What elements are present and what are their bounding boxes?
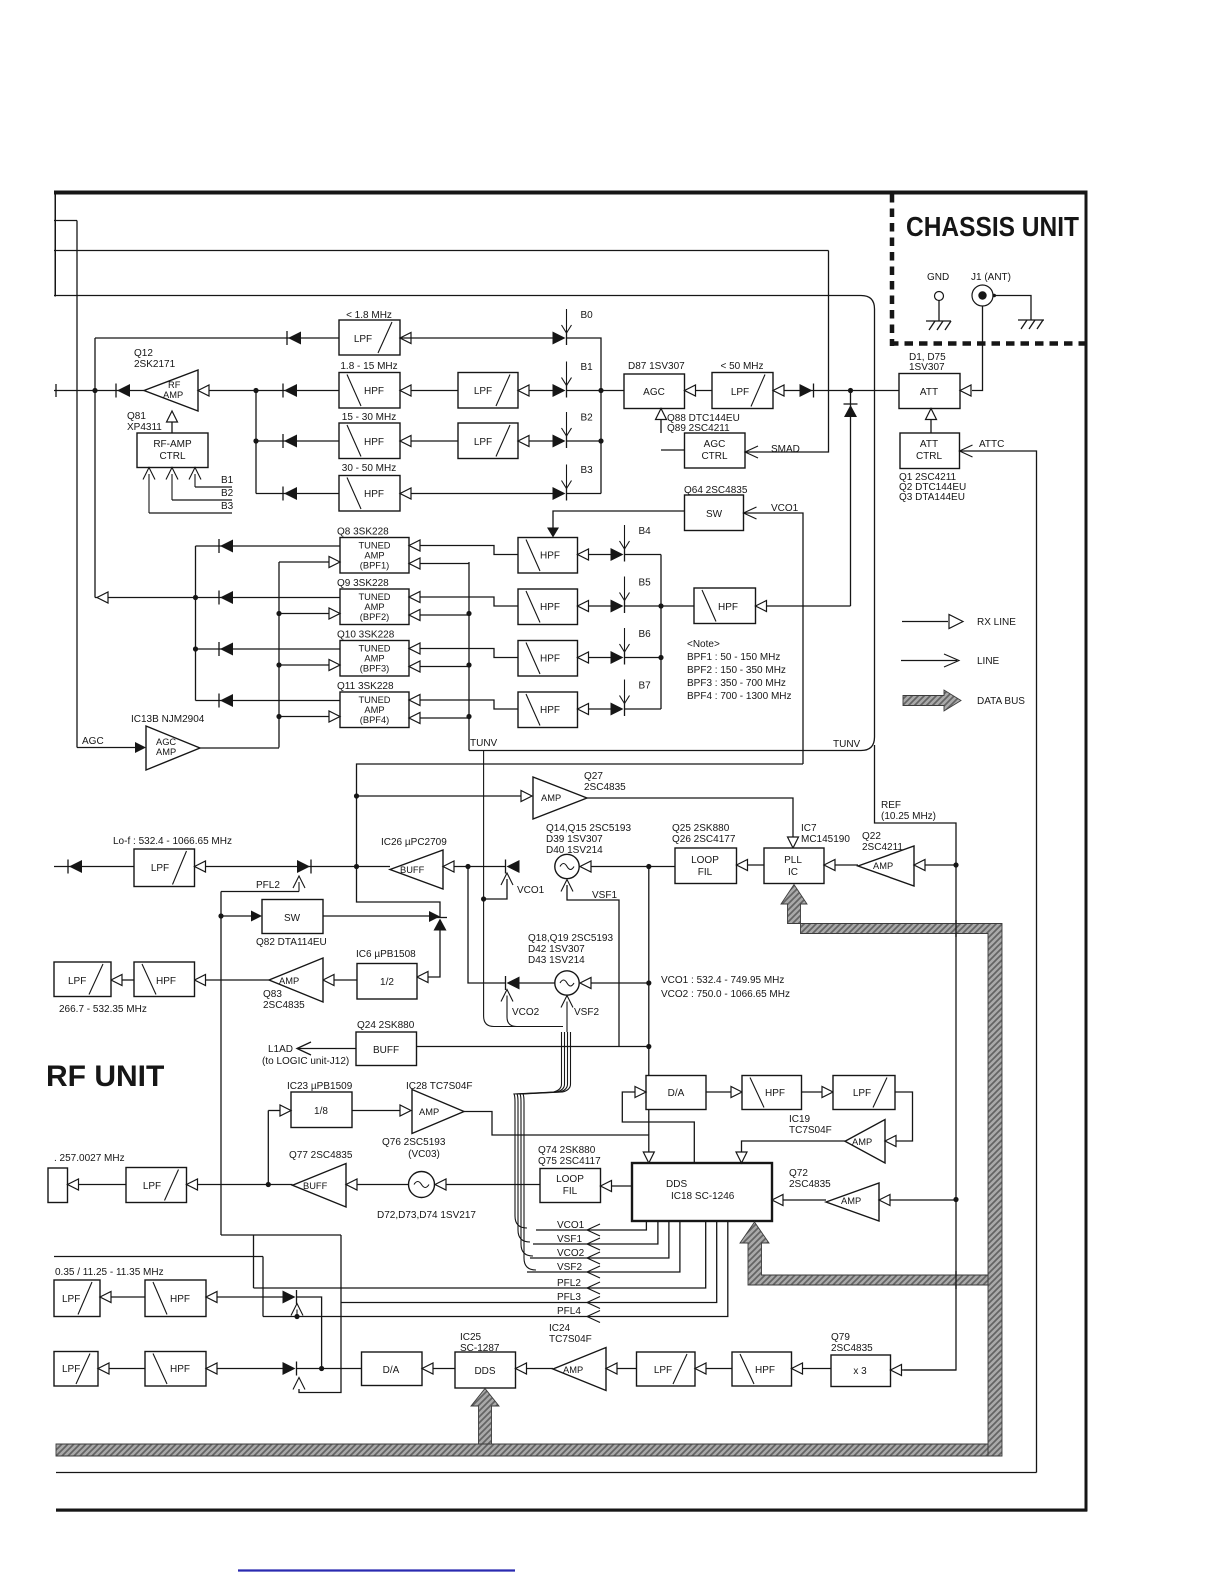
svg-text:J1 (ANT): J1 (ANT) [971, 272, 1011, 283]
connector J1 [972, 285, 993, 306]
wire TUNV bottom [469, 737, 875, 751]
wire B7 to bus [625, 708, 662, 710]
rf unit border top [54, 191, 1087, 195]
wire hpf B2 to lpf B2 [411, 440, 458, 442]
arrow into hpf B6 [578, 652, 589, 663]
wire pfl selector horiz [221, 1234, 341, 1236]
wire row B3 left [256, 493, 339, 495]
arrow tunv into (BPF4) [409, 713, 420, 724]
buff IC26 [390, 850, 443, 889]
wire hpf B4 right [589, 554, 612, 556]
wire B5 to hpf50 [661, 605, 694, 607]
amp IC28 [412, 1090, 464, 1134]
diode vco1 [505, 860, 507, 874]
diode output (BPF1) [218, 539, 220, 553]
wire pfl2 line [254, 1221, 706, 1288]
svg-text:(to LOGIC unit-J12): (to LOGIC unit-J12) [262, 1056, 349, 1067]
svg-text:AGC: AGC [643, 387, 665, 398]
hpf B3 30-50 MHz [339, 476, 400, 512]
hpf row2 [134, 962, 195, 997]
wire lpf-hpf B [109, 1368, 145, 1370]
svg-text:BPF2 : 150 - 350 MHz: BPF2 : 150 - 350 MHz [687, 665, 786, 676]
B2 select arrow [566, 412, 568, 436]
arrow into hpf B3 [400, 488, 411, 499]
svg-text:B6: B6 [639, 629, 652, 640]
svg-text:L1AD: L1AD [268, 1044, 293, 1055]
B0 select arrow [566, 309, 568, 333]
wire hpf to (BPF3) upper [420, 649, 518, 658]
wire lpf50 to att [784, 390, 899, 392]
diode B1 [566, 384, 568, 398]
wire hpf B5 right [589, 605, 612, 607]
dds ic18 box [632, 1163, 772, 1221]
wire tunv to (BPF4) [420, 717, 469, 719]
svg-text:266.7 - 532.35 MHz: 266.7 - 532.35 MHz [59, 1004, 147, 1015]
hpf bank row B7 [518, 692, 578, 728]
svg-text:2SC4835: 2SC4835 [789, 1179, 831, 1190]
svg-text:IC: IC [788, 867, 798, 878]
hpf bank row B4 [518, 538, 578, 574]
arrow pfl2 up [293, 876, 305, 888]
wire agc to (BPF3) [279, 664, 329, 666]
wire ref line [875, 745, 957, 1370]
svg-text:LPF: LPF [151, 863, 169, 874]
sw box Q82 [262, 900, 323, 934]
B5 select arrow [624, 577, 626, 601]
arrow tunv into (BPF1) [409, 558, 420, 569]
wire vco1 select net [357, 764, 804, 917]
svg-text:REF: REF [881, 800, 901, 811]
wire J1 to chassis ground [993, 296, 1031, 321]
diode row B [296, 1362, 298, 1376]
diode after lpf50 [813, 384, 815, 398]
wire branch bus to rows [255, 391, 257, 494]
amp Q83 [269, 958, 323, 1002]
arrow into loop fil q74 [601, 1181, 612, 1192]
wire lpf to ic24 [617, 1368, 637, 1370]
svg-text:CTRL: CTRL [701, 451, 728, 462]
svg-text:. 257.0027 MHz: . 257.0027 MHz [54, 1153, 125, 1164]
wire B1 stub [195, 486, 232, 488]
att ctrl box [900, 433, 960, 469]
wire x3 to hpf [803, 1368, 832, 1370]
svg-text:AGC: AGC [704, 439, 726, 450]
arrow into lpf A [100, 1292, 111, 1303]
svg-text:VSF2: VSF2 [574, 1007, 599, 1018]
wire B1 to bus [567, 390, 602, 392]
hpf B5 right [694, 588, 756, 624]
wire buff to vco3 [357, 1184, 409, 1186]
arrow into hpf B5 [578, 601, 589, 612]
diode B2 [566, 434, 568, 448]
arrow SMAD into agc ctrl [745, 446, 758, 458]
arrow into lpf B2 [518, 436, 529, 447]
arrow agc into (BPF1) [329, 557, 340, 568]
svg-text:2SC4835: 2SC4835 [831, 1343, 873, 1354]
diode vco2 [505, 976, 507, 990]
svg-text:IC18 SC-1246: IC18 SC-1246 [671, 1191, 735, 1202]
lpf q77 row [126, 1168, 187, 1203]
wire pfl3 line [341, 1221, 717, 1303]
arrow vsf2 into osc [561, 996, 573, 1008]
diode row B3 [282, 487, 284, 501]
arrow into vco2 osc [580, 978, 591, 989]
amp Q22 [858, 846, 914, 886]
svg-text:LPF: LPF [853, 1088, 871, 1099]
arrow into lpf B [98, 1363, 109, 1374]
arrow into hpf B2 [400, 436, 411, 447]
svg-text:D/A: D/A [383, 1365, 400, 1376]
lpf x3 row [637, 1352, 696, 1386]
B7 select arrow [624, 680, 626, 704]
lpf B0 < 1.8 MHz [339, 320, 400, 355]
wire rf amp to hpf B1 [209, 390, 339, 392]
arrow ic28 into dds [643, 1152, 654, 1163]
arrow agc into (BPF2) [329, 608, 340, 619]
chassis unit dashed border left [890, 194, 895, 346]
d/a lower box [362, 1352, 423, 1386]
wire half to amp [334, 979, 357, 981]
svg-text:Q77 2SC4835: Q77 2SC4835 [289, 1150, 353, 1161]
svg-text:D/A: D/A [668, 1088, 685, 1099]
tuned amp (BPF3) [340, 641, 409, 677]
svg-text:TUNED: TUNED [358, 541, 390, 551]
wire tunv to varactors [484, 751, 563, 1027]
svg-text:D42 1SV307: D42 1SV307 [528, 944, 585, 955]
svg-text:HPF: HPF [755, 1365, 775, 1376]
svg-text:Q26 2SC4177: Q26 2SC4177 [672, 834, 736, 845]
buff Q77 [293, 1164, 347, 1208]
wire hpf to (BPF1) upper [420, 546, 518, 555]
svg-text:Q8 3SK228: Q8 3SK228 [337, 527, 389, 538]
svg-text:TUNED: TUNED [358, 592, 390, 602]
svg-text:Q18,Q19 2SC5193: Q18,Q19 2SC5193 [528, 933, 613, 944]
pll ic box [764, 848, 824, 884]
svg-text:Q79: Q79 [831, 1332, 850, 1343]
amp Q27 [533, 777, 587, 819]
wire B0 to bus [567, 338, 602, 494]
output box left q77 row [48, 1168, 68, 1203]
ground symbol GND [926, 321, 951, 330]
svg-text:TC7S04F: TC7S04F [549, 1334, 592, 1345]
data bus branch dds ic18 [740, 1222, 988, 1285]
tuned amp (BPF1) [340, 538, 409, 574]
GND terminal circle [935, 292, 944, 301]
wire attc bottom line [56, 1472, 1037, 1474]
wire L1AD [297, 1048, 356, 1050]
svg-text:Q10 3SK228: Q10 3SK228 [337, 630, 395, 641]
arrow into hpf B4 [578, 549, 589, 560]
arrow into rf amp [198, 385, 209, 396]
svg-text:(BPF1): (BPF1) [360, 561, 389, 571]
data bus arrow dds ic25 [471, 1389, 499, 1445]
wire vco2 row [468, 867, 505, 984]
svg-text:AMP: AMP [156, 747, 176, 757]
svg-text:Q11 3SK228: Q11 3SK228 [337, 681, 394, 692]
svg-text:Q72: Q72 [789, 1168, 808, 1179]
svg-text:<Note>: <Note> [687, 639, 720, 650]
svg-text:SMAD: SMAD [771, 444, 800, 455]
svg-text:GND: GND [927, 272, 949, 283]
arrow vsf1 into osc [561, 880, 573, 892]
svg-text:SW: SW [284, 913, 301, 924]
svg-text:LPF: LPF [474, 386, 492, 397]
svg-text:AMP: AMP [364, 602, 384, 612]
svg-text:Q9 3SK228: Q9 3SK228 [337, 578, 389, 589]
amp IC24 [553, 1348, 606, 1391]
svg-text:AMP: AMP [364, 551, 384, 561]
svg-text:B1: B1 [581, 362, 594, 373]
arrow into half divider [417, 972, 428, 983]
svg-text:AMP: AMP [279, 976, 299, 986]
svg-text:VSF2: VSF2 [557, 1262, 582, 1273]
wire B2 to bus [567, 440, 602, 442]
wire GND [938, 301, 940, 322]
wire lpf B2 right [529, 440, 553, 442]
wire ic19 to dds [742, 1141, 846, 1152]
svg-text:LPF: LPF [143, 1181, 161, 1192]
svg-text:HPF: HPF [364, 386, 384, 397]
wire output (BPF3) [196, 648, 341, 650]
wire ref to q72 [890, 1199, 956, 1201]
wire vsf trunk upper [514, 1032, 562, 1228]
arrow into output box [68, 1179, 79, 1190]
arrow into hpf B7 [578, 704, 589, 715]
svg-text:TUNED: TUNED [358, 644, 390, 654]
B4 select arrow [624, 525, 626, 549]
diode lo-f [67, 860, 69, 874]
wire hpf to lpf x3 row [706, 1368, 732, 1370]
svg-text:PFL4: PFL4 [557, 1306, 581, 1317]
wire tunv to (BPF2) [420, 614, 469, 616]
arrow B3 into ctrl [143, 468, 155, 480]
svg-text:BUFF: BUFF [400, 865, 425, 875]
wire hpf to (BPF4) upper [420, 700, 518, 709]
svg-text:RX LINE: RX LINE [977, 617, 1016, 628]
B3 select arrow [566, 465, 568, 489]
wire output (BPF4) [196, 700, 341, 702]
svg-text:1/8: 1/8 [314, 1106, 328, 1117]
svg-text:D43 1SV214: D43 1SV214 [528, 955, 585, 966]
diode B7 [624, 702, 626, 716]
svg-text:HPF: HPF [765, 1088, 785, 1099]
svg-text:BUFF: BUFF [373, 1045, 399, 1056]
svg-text:XP4311: XP4311 [127, 422, 162, 433]
arrow into vco1 osc [580, 861, 591, 872]
rf amp Q12 [144, 370, 198, 411]
arrow into lpf lo-f [195, 861, 206, 872]
rf unit border left stub [55, 191, 57, 297]
wire hpf B3 right [411, 493, 553, 495]
hpf upper [742, 1076, 802, 1110]
arrow into lpf B0 [400, 333, 411, 344]
data bus bottom run [56, 1444, 988, 1456]
wire pfl2 horiz [221, 891, 299, 893]
svg-text:LPF: LPF [474, 437, 492, 448]
svg-text:IC13B NJM2904: IC13B NJM2904 [131, 714, 205, 725]
wire hpf A to diode [217, 1296, 283, 1298]
svg-text:HPF: HPF [718, 602, 738, 613]
wire lpf to buff q77 [198, 1184, 293, 1186]
svg-text:HPF: HPF [540, 705, 560, 716]
diode output (BPF4) [218, 694, 220, 708]
svg-text:PLL: PLL [784, 855, 802, 866]
svg-text:(BPF3): (BPF3) [360, 664, 389, 674]
svg-text:2SK2171: 2SK2171 [134, 359, 176, 370]
arrow into d/a upper [635, 1087, 646, 1098]
svg-text:IC7: IC7 [801, 823, 817, 834]
dds ic25 box [455, 1352, 516, 1388]
wire output (BPF1) [196, 545, 341, 547]
wire loop fil to vco3 [446, 1184, 540, 1186]
diode B6 [624, 651, 626, 665]
wire q22 to pll [835, 864, 858, 866]
arrow pfl4 up row A [291, 1304, 303, 1316]
arrow into lpf50 [773, 385, 784, 396]
svg-text:VSF1: VSF1 [557, 1234, 582, 1245]
wire ctrl to rf amp [171, 422, 173, 433]
wire AGC stub from left edge [54, 220, 77, 222]
wire B4 to bus [625, 554, 662, 556]
data bus arrow into pll [781, 885, 1002, 1457]
wire row B2 left [256, 440, 339, 442]
wire pfl2 riser bottom [253, 1235, 255, 1288]
lpf lo-f [134, 849, 195, 887]
agc box D87 [624, 374, 685, 409]
arrow into hpf x3 row [792, 1363, 803, 1374]
svg-text:B5: B5 [639, 578, 652, 589]
wire pfl4 riser [262, 1257, 264, 1317]
svg-text:ATTC: ATTC [979, 439, 1004, 450]
svg-text:RF-AMP: RF-AMP [153, 439, 192, 450]
arrow into loop fil [737, 860, 748, 871]
wire lo-f out [54, 866, 134, 868]
svg-text:(BPF4): (BPF4) [360, 715, 389, 725]
svg-text:PFL3: PFL3 [557, 1292, 581, 1303]
d/a upper box [646, 1076, 706, 1110]
ground symbol J1 [1018, 320, 1044, 329]
wire sw vco1 riser [744, 513, 804, 764]
loop fil q74 box [540, 1169, 601, 1203]
diode pfl2 [310, 860, 312, 874]
svg-text:1SV307: 1SV307 [909, 362, 945, 373]
wire att ctrl to att [930, 420, 932, 433]
blue pen mark [238, 1569, 515, 1571]
svg-text:CHASSIS UNIT: CHASSIS UNIT [906, 211, 1079, 242]
svg-text:1/2: 1/2 [380, 977, 394, 988]
wire agc to (BPF4) [279, 716, 329, 718]
svg-text:2SC4835: 2SC4835 [584, 782, 626, 793]
svg-text:VCO2 : 750.0 - 1066.65 MHz: VCO2 : 750.0 - 1066.65 MHz [661, 989, 790, 1000]
arrow into att [960, 385, 971, 396]
arrow into lpf x3 row [695, 1363, 706, 1374]
arrow L1AD [297, 1042, 311, 1055]
arrow into ic24 [606, 1363, 617, 1374]
wire lpf to buff [206, 866, 391, 868]
wire 850 down to hpf B5 row [850, 391, 852, 607]
vertical bus B4-B7 [660, 555, 662, 710]
diode B1 input [115, 384, 117, 398]
arrow into lpf row2 [111, 975, 122, 986]
wire agc to (BPF2) [279, 613, 329, 615]
svg-text:DATA BUS: DATA BUS [977, 696, 1025, 707]
wire output 0.35 line [54, 1256, 263, 1258]
svg-text:2SC4211: 2SC4211 [862, 842, 903, 853]
wire pfl2 riser to sw [220, 892, 222, 1236]
tuned amp (BPF4) [340, 692, 409, 728]
wire hpf B to diode [217, 1368, 283, 1370]
wire row B0 left [95, 337, 339, 339]
tuned amp (BPF2) [340, 589, 409, 625]
svg-text:Q14,Q15 2SC5193: Q14,Q15 2SC5193 [546, 823, 631, 834]
B6 select arrow [624, 628, 626, 652]
svg-text:TC7S04F: TC7S04F [789, 1125, 832, 1136]
arrow into amp Q83 [323, 975, 334, 986]
arrow into hpf row2 [195, 975, 206, 986]
hpf row A [145, 1280, 206, 1317]
svg-text:B1: B1 [221, 475, 234, 486]
wire vco2 to node [591, 982, 649, 984]
arrow B2 into ctrl [166, 468, 178, 480]
svg-text:RF: RF [168, 380, 181, 390]
svg-text:AMP: AMP [364, 705, 384, 715]
svg-text:AMP: AMP [364, 654, 384, 664]
arrow B1 into ctrl [189, 468, 201, 480]
wire ATTC riser [960, 451, 1037, 1473]
svg-text:VCO2: VCO2 [557, 1248, 585, 1259]
arrow combined output [97, 592, 108, 603]
svg-text:LOOP: LOOP [691, 855, 719, 866]
wire hpf B1 to lpf B1 [411, 390, 458, 392]
svg-text:BPF1 : 50 - 150 MHz: BPF1 : 50 - 150 MHz [687, 652, 780, 663]
svg-text:HPF: HPF [540, 654, 560, 665]
sw box Q64 [685, 495, 744, 531]
svg-text:BPF3 : 350 - 700 MHz: BPF3 : 350 - 700 MHz [687, 678, 786, 689]
svg-text:AMP: AMP [873, 861, 893, 871]
rf unit border right [1085, 191, 1088, 1512]
hpf row B [145, 1352, 206, 1387]
svg-text:(10.25 MHz): (10.25 MHz) [881, 811, 936, 822]
wire hpf to lpf upper [802, 1091, 823, 1093]
wire ic28 out to dds [464, 1112, 649, 1153]
svg-text:Q75 2SC4117: Q75 2SC4117 [538, 1156, 601, 1167]
wire TUNV top line [54, 296, 875, 738]
svg-text:AGC: AGC [156, 737, 176, 747]
lpf B1 second [458, 373, 518, 409]
wire output bus left [195, 546, 197, 701]
svg-text:< 50 MHz: < 50 MHz [720, 361, 763, 372]
wire agc amp out [200, 747, 279, 749]
svg-text:VCO1 : 532.4 - 749.95 MHz: VCO1 : 532.4 - 749.95 MHz [661, 975, 784, 986]
svg-text:HPF: HPF [540, 602, 560, 613]
wire B3 stub [149, 512, 232, 514]
wire q27 input [357, 795, 522, 797]
svg-text:BUFF: BUFF [303, 1181, 328, 1191]
wire AGC into amp [77, 747, 135, 749]
legend data bus [903, 690, 961, 711]
wire B2 stub [172, 499, 232, 501]
wire lpf to ic19 [895, 1092, 913, 1141]
wire combined output riser [94, 338, 96, 598]
wire vco node down [648, 867, 650, 1136]
wire amp to hpf [206, 979, 270, 981]
svg-text:HPF: HPF [156, 976, 176, 987]
hpf B1 1.8-15 MHz [339, 373, 400, 409]
arrow tunv into (BPF2) [409, 610, 420, 621]
svg-text:Q81: Q81 [127, 411, 146, 422]
wire row B0 right [400, 337, 553, 339]
svg-text:FIL: FIL [698, 867, 713, 878]
